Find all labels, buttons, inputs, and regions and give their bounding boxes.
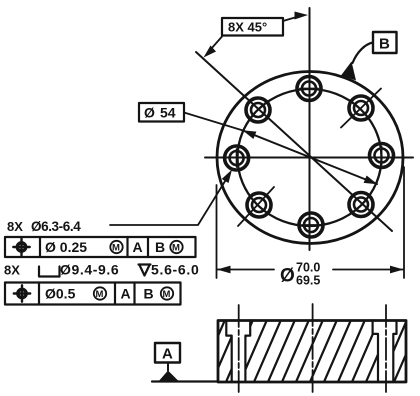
svg-text:54: 54 [160,105,176,121]
hole E counterbore [370,144,394,168]
extension line left Ø70 [216,185,218,278]
svg-text:A: A [133,239,143,255]
position symbol FCF2 [14,285,30,301]
hole N counterbore [297,77,321,101]
dimension line Ø70 right [333,269,404,271]
svg-text:5.6-6.0: 5.6-6.0 [151,262,200,278]
arrowhead Ø70 left [217,266,231,274]
bolt circle Ø54 [238,89,382,226]
outer circle Ø70 [217,72,403,244]
section right counterbore profile [373,321,397,383]
modifier M FCF1 tolerance [110,241,122,254]
label box 8X 45 [222,18,283,36]
svg-text:A: A [162,346,173,363]
counterbore symbol [39,267,60,277]
hole NW counterbore [246,98,270,122]
arrowhead Ø70 right [390,266,404,274]
datum A surface line [152,380,218,382]
note 8X counterbore Ø9.4-9.6 depth 5.6-6.0 [4,262,200,278]
svg-text:Ø 0.25: Ø 0.25 [45,239,87,255]
svg-text:M: M [112,243,120,254]
modifier M FCF2 tolerance [94,287,106,300]
arrowhead Ø54 left [243,130,257,139]
svg-text:Ø9.4-9.6: Ø9.4-9.6 [60,262,119,278]
svg-text:B: B [155,239,165,255]
svg-text:M: M [163,289,171,300]
svg-text:Ø: Ø [280,266,295,287]
svg-text:A: A [121,286,131,302]
depth symbol [139,265,151,276]
section left hole centerline [238,305,240,392]
svg-text:69.5: 69.5 [296,274,320,288]
svg-text:8X: 8X [7,219,23,234]
section view outline [218,321,406,383]
datum A box [155,343,180,363]
leader from 8X45 to 45-degree line [211,37,222,50]
arrowhead at 45-degree line [204,46,217,58]
extension line right Ø70 [403,167,405,278]
note 8X Ø6.3-6.4 [7,219,81,234]
leader from note to hole W [110,176,229,226]
svg-text:Ø0.5: Ø0.5 [45,286,76,302]
svg-text:Ø: Ø [144,105,155,121]
diameter line Ø54 [243,131,377,185]
hole W counterbore [225,146,249,170]
leader from 8X45 to centerline [283,16,300,21]
hole S counterbore [299,213,323,237]
datum B triangle [341,62,356,81]
svg-text:8X 45°: 8X 45° [228,20,267,35]
section left counterbore profile [226,321,250,383]
hole SW counterbore [238,187,274,226]
svg-text:B: B [144,286,154,302]
svg-text:70.0: 70.0 [296,261,320,275]
dimension line Ø70 left [217,269,274,271]
arrowhead at centerline [295,12,309,20]
modifier M FCF1 datum B [170,241,182,254]
svg-text:M: M [172,243,180,254]
section right hole centerline [385,305,387,392]
datum B leader [353,43,374,64]
datum A triangle [159,371,179,382]
position symbol FCF1 [13,239,29,255]
arrowhead Ø54 right [364,176,378,185]
label box Ø54 [139,103,184,122]
feature control frame 2 [5,283,181,305]
hole NE counterbore [341,89,381,128]
svg-text:B: B [379,36,390,53]
horizontal centerline [205,157,413,159]
svg-text:M: M [96,289,104,300]
arrowhead at hole W [222,170,232,184]
svg-text:Ø6.3-6.4: Ø6.3-6.4 [31,219,81,234]
feature control frame 1 [5,237,196,257]
datum B box [373,32,397,53]
section view hatching [184,321,420,383]
dimension text Ø70.0 69.5 [280,261,320,288]
svg-text:8X: 8X [4,263,20,278]
datum A stem [167,363,169,371]
hole SE counterbore [349,193,373,217]
45-degree construction line [196,52,392,231]
modifier M FCF2 datum B [161,287,173,300]
leader Ø54 to diameter line [184,113,243,131]
section mid centerline [312,304,314,394]
vertical centerline [309,8,311,250]
